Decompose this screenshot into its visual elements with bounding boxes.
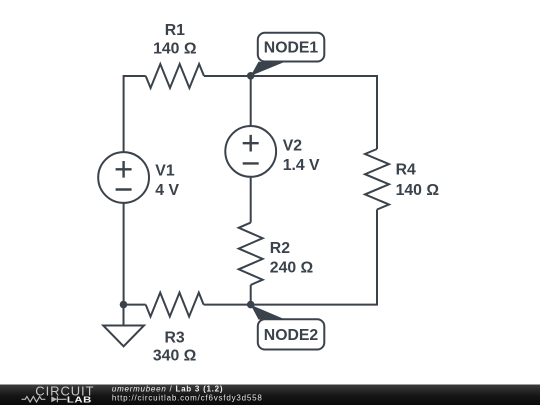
ground [103, 305, 144, 347]
svg-text:340 Ω: 340 Ω [153, 347, 197, 364]
wire NODE1 junction to top-right corner down to R4 top [251, 76, 377, 149]
CircuitLab logo [22, 383, 95, 404]
svg-text:V1: V1 [155, 163, 175, 180]
label V1 4V [155, 163, 179, 199]
label R4 140Ω [396, 162, 440, 199]
wire R3 left terminal to ground junction [124, 304, 146, 306]
wire NODE1 junction down to V2 top [250, 76, 252, 126]
label R2 240Ω [270, 240, 314, 277]
svg-text:NODE1: NODE1 [264, 40, 319, 57]
svg-text:R4: R4 [396, 162, 416, 179]
wire R1 right terminal to NODE1 junction [204, 75, 251, 77]
voltage source V1 [98, 152, 149, 203]
svg-text:http://circuitlab.com/cf6vsfdy: http://circuitlab.com/cf6vsfdy3d558 [112, 394, 263, 403]
wire R2 bottom to NODE2 junction [250, 285, 252, 305]
resistor R3 [146, 293, 204, 317]
svg-text:NODE2: NODE2 [264, 327, 319, 344]
footer bar [0, 385, 540, 405]
svg-text:R2: R2 [270, 240, 290, 257]
svg-text:umermubeen / Lab 3 (1.2): umermubeen / Lab 3 (1.2) [112, 385, 223, 394]
junction dot ground node [120, 301, 128, 309]
junction dot NODE1 [247, 72, 255, 80]
node NODE1 [251, 33, 325, 76]
wire V2 bottom to R2 top [250, 176, 252, 222]
wire V1 bottom down to ground junction [123, 203, 125, 305]
svg-text:240 Ω: 240 Ω [270, 260, 314, 277]
svg-text:1.4 V: 1.4 V [283, 157, 320, 174]
resistor R2 [239, 223, 263, 285]
svg-text:140 Ω: 140 Ω [153, 41, 197, 58]
label V2 1.4V [283, 138, 320, 174]
svg-text:4 V: 4 V [155, 182, 179, 199]
label R3 340Ω [153, 330, 197, 365]
node NODE2 [251, 305, 325, 350]
svg-text:R3: R3 [164, 330, 184, 347]
resistor R4 [365, 149, 389, 210]
svg-text:R1: R1 [165, 22, 185, 39]
resistor R1 [146, 64, 204, 88]
wire left-top: V1 top to top-left corner to R1 left terminal [124, 76, 146, 153]
wire NODE2 junction left to R3 right terminal [204, 304, 251, 306]
label R1 140Ω [153, 22, 197, 58]
svg-text:V2: V2 [283, 138, 303, 155]
wire R4 bottom to bottom-right corner to NODE2 junction [251, 210, 377, 305]
svg-text:140 Ω: 140 Ω [396, 182, 440, 199]
svg-text:LAB: LAB [67, 396, 92, 405]
junction dot NODE2 [247, 301, 255, 309]
voltage source V2 [225, 126, 276, 177]
